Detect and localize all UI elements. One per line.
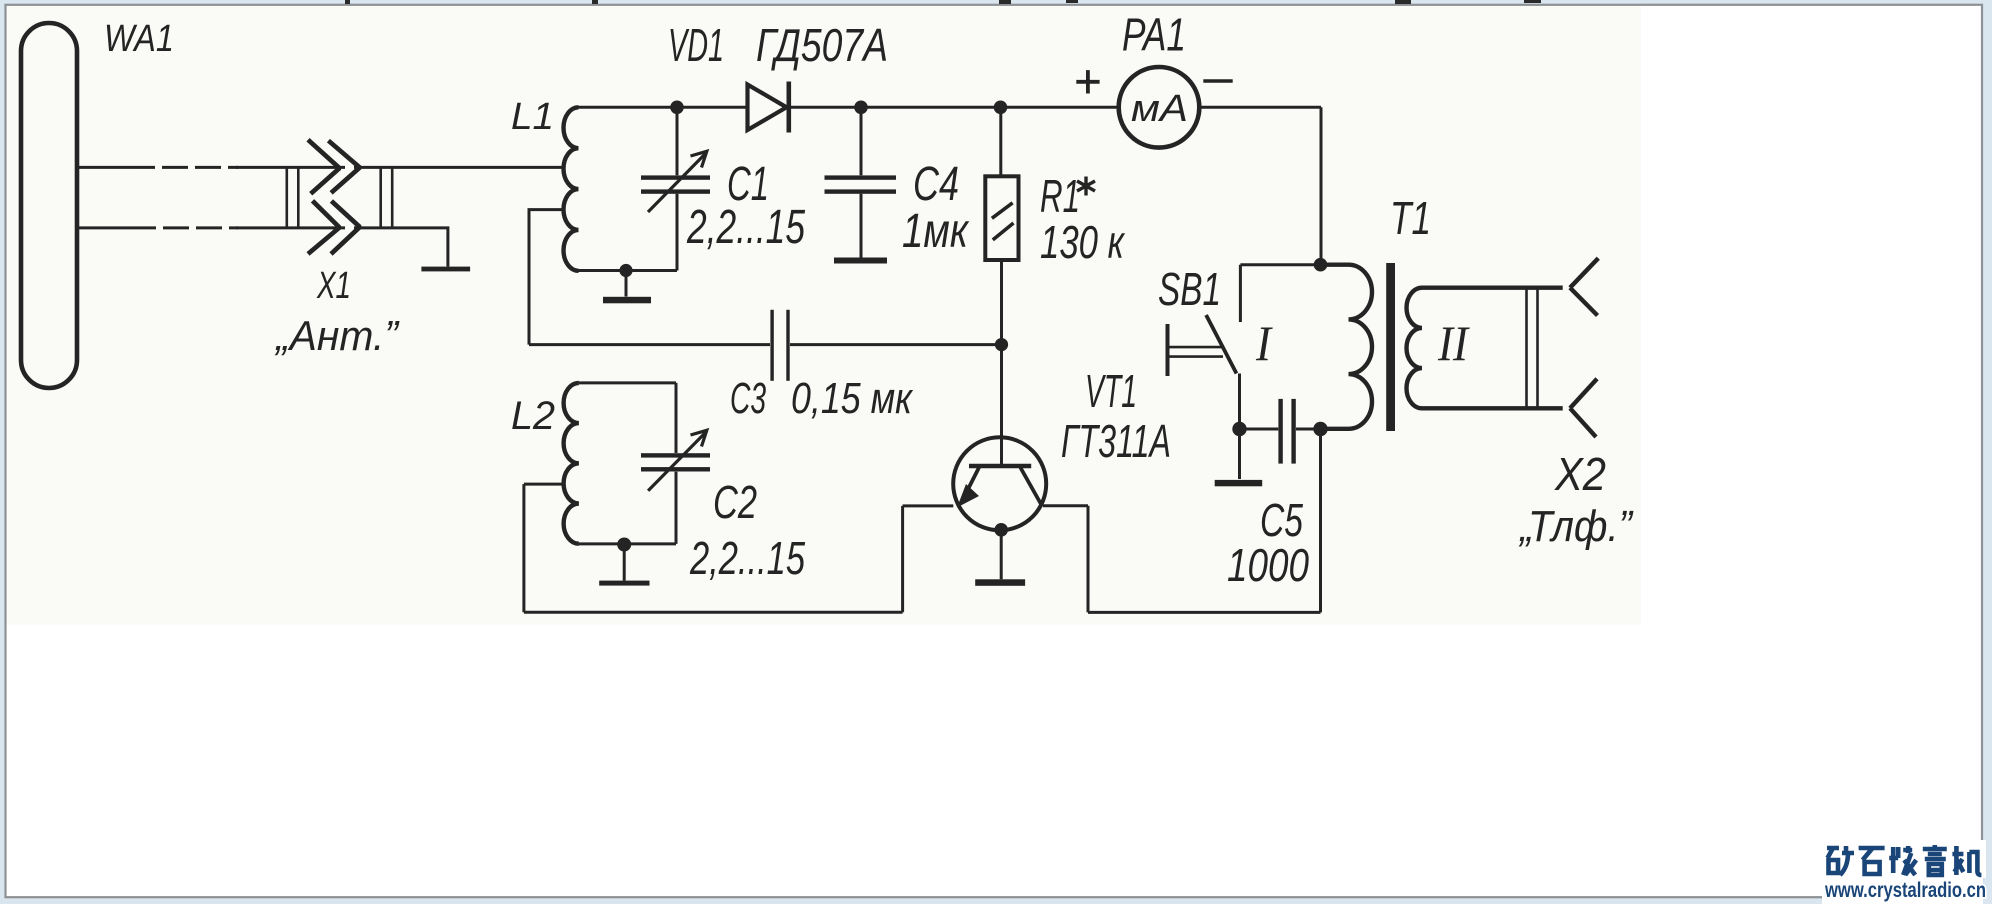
connector X2 top contact — [1570, 258, 1598, 315]
minus sign — [1203, 79, 1232, 83]
connector X1 bottom chevrons — [308, 201, 360, 254]
svg-text:0,15 мк: 0,15 мк — [791, 374, 914, 423]
svg-text:PA1: PA1 — [1122, 9, 1186, 61]
svg-text:R1: R1 — [1040, 170, 1080, 222]
svg-text:„Тлф.”: „Тлф.” — [1518, 502, 1634, 551]
node B junction dot — [854, 101, 868, 115]
svg-text:SB1: SB1 — [1158, 263, 1221, 315]
wire L2 top — [579, 381, 676, 384]
svg-text:www.crystalradio.cn: www.crystalradio.cn — [1824, 879, 1986, 902]
switch SB1 — [1240, 265, 1320, 322]
antenna WA1 loop — [21, 23, 77, 388]
node E junction dot — [995, 338, 1008, 351]
svg-text:L1: L1 — [511, 96, 554, 138]
wire antenna top lead dashed — [129, 166, 238, 169]
node L2 bottom junction dot — [617, 538, 631, 552]
svg-text:2,2...15: 2,2...15 — [686, 201, 805, 254]
wire meter to corner down to node D — [1199, 107, 1321, 264]
wire VT1 collector right — [1043, 506, 1088, 613]
wire antenna bottom lead to connector and down — [236, 228, 448, 267]
svg-text:ГД507А: ГД507А — [756, 19, 888, 71]
wire L1 top to node A — [579, 106, 678, 109]
transformer T1 secondary winding II — [1407, 288, 1563, 409]
svg-text:X2: X2 — [1554, 448, 1606, 500]
wire L1 bottom — [579, 269, 678, 272]
transformer T1 core — [1386, 263, 1395, 431]
diode VD1 — [677, 106, 748, 109]
transformer T1 primary winding I — [1321, 265, 1373, 429]
svg-text:1мк: 1мк — [902, 205, 970, 258]
resistor R1 — [999, 107, 1002, 176]
wire L2 tap to bottom rail — [524, 484, 564, 612]
ground under SB1/C5 — [1238, 429, 1241, 479]
svg-text:130 к: 130 к — [1040, 216, 1126, 268]
svg-text:мА: мА — [1131, 88, 1188, 130]
connector X2 bottom contact — [1570, 379, 1597, 437]
wire node B to node C — [861, 106, 1119, 109]
svg-text:1000: 1000 — [1227, 539, 1309, 591]
connector X2 jack bracket — [1527, 288, 1538, 409]
connector X1 top chevrons — [308, 140, 360, 194]
svg-text:I: I — [1255, 315, 1273, 371]
svg-text:ГТ311А: ГТ311А — [1061, 415, 1171, 467]
node G junction dot — [1313, 422, 1327, 436]
scanned schematic off-white background — [7, 6, 1642, 625]
wire antenna top lead solid — [77, 166, 129, 169]
svg-text:VD1: VD1 — [668, 19, 724, 71]
node C junction dot — [994, 101, 1008, 115]
meter PA1 — [1119, 67, 1200, 148]
wire L2 bottom — [579, 542, 676, 545]
capacitor C1 variable — [676, 107, 679, 270]
connector X1 right bracket — [381, 167, 393, 228]
wire VT1 emitter left — [903, 506, 954, 612]
svg-text:X1: X1 — [316, 265, 351, 307]
wire L1 tap to base rail — [529, 210, 564, 345]
node VT1 case junction dot — [994, 523, 1008, 537]
svg-text:C2: C2 — [713, 476, 757, 528]
ground at X1 — [421, 267, 470, 272]
cropped text descender fragments above frame — [345, 0, 1541, 4]
capacitor C4 — [860, 107, 863, 257]
connector X1 left bracket — [287, 167, 299, 228]
ground under VT1 — [1000, 530, 1003, 579]
capacitor C2 variable — [675, 383, 678, 544]
svg-text:2,2...15: 2,2...15 — [689, 532, 805, 584]
inductor L2 — [564, 383, 579, 544]
svg-text:C3: C3 — [730, 374, 766, 423]
wire bottom rail right — [1088, 433, 1321, 612]
wire antenna top lead to connector — [236, 166, 564, 169]
node A junction dot — [670, 101, 684, 115]
capacitor C3 — [529, 343, 770, 346]
svg-text:T1: T1 — [1390, 192, 1431, 244]
wire bottom rail left — [524, 611, 903, 614]
svg-text:„Ант.”: „Ант.” — [274, 312, 400, 359]
asterisk of R1 — [1077, 177, 1095, 196]
node L1 bottom junction dot — [619, 264, 632, 277]
ground under L2 — [623, 545, 626, 581]
watermark white patch over border — [1976, 840, 1986, 878]
svg-text:WA1: WA1 — [104, 18, 174, 60]
wire antenna bottom lead solid — [77, 226, 130, 229]
svg-text:C4: C4 — [913, 158, 959, 211]
node F junction dot — [1232, 422, 1246, 436]
inductor L1 — [564, 107, 579, 271]
node D junction dot — [1314, 258, 1328, 272]
watermark chinese logo 矿石收音机 — [1827, 845, 1981, 875]
ground under C4 — [834, 258, 887, 264]
capacitor C5 — [1240, 428, 1321, 431]
svg-text:L2: L2 — [511, 394, 555, 438]
transistor VT1 — [953, 437, 1046, 530]
svg-text:II: II — [1437, 315, 1470, 371]
plus sign — [1076, 70, 1099, 93]
ground under L1 — [625, 271, 628, 297]
svg-text:VT1: VT1 — [1085, 365, 1137, 417]
wire antenna bottom lead dashed — [130, 226, 238, 229]
